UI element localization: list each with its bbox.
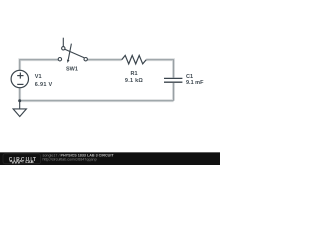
- wire switch to resistor: [87, 59, 121, 61]
- svg-text:9.1 mF: 9.1 mF: [186, 80, 204, 86]
- switch SW1: [58, 38, 87, 61]
- wire V1 bottom to junction: [19, 88, 21, 101]
- svg-text:9.1 kΩ: 9.1 kΩ: [125, 78, 143, 84]
- node junction dot: [18, 99, 21, 102]
- switch arrow head: [67, 60, 70, 64]
- ground: [13, 101, 26, 117]
- wire C1 bottom to bottom rail: [173, 83, 175, 101]
- wire top-left from V1 top: [20, 60, 59, 70]
- svg-text:R1: R1: [130, 71, 137, 77]
- svg-text:6.91 V: 6.91 V: [35, 82, 53, 88]
- wire bottom rail: [20, 100, 174, 102]
- resistor R1: [122, 55, 147, 64]
- wire halos (soft edges): [20, 60, 174, 101]
- voltage source V1: [11, 70, 28, 87]
- wire resistor to top-right corner down to C1: [146, 60, 173, 78]
- svg-text:LAB: LAB: [25, 159, 33, 164]
- svg-text:http://circuitlab.com/c/6847qq: http://circuitlab.com/c/6847qqanp: [43, 157, 97, 161]
- capacitor C1: [164, 78, 182, 82]
- footer bar: [0, 152, 220, 165]
- svg-text:SW1: SW1: [66, 67, 78, 73]
- svg-text:C1: C1: [186, 74, 193, 80]
- CircuitLab logo: [3, 154, 41, 164]
- svg-text:V1: V1: [35, 74, 42, 80]
